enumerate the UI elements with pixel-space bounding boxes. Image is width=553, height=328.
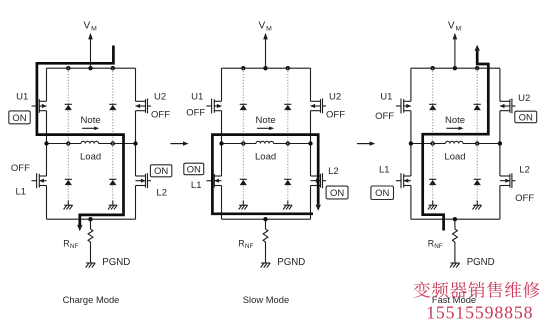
svg-text:U1: U1 (380, 92, 392, 103)
diode body L2 panel1 (109, 179, 116, 185)
node mid-left corner panel2 (219, 141, 223, 145)
svg-text:PGND: PGND (102, 257, 130, 268)
wire mid rail right panel1 (99, 143, 136, 145)
wire current path Charge Mode (37, 46, 124, 227)
inductor Load panel3 (445, 141, 463, 143)
arrow note panel1 (82, 127, 99, 131)
wire R_NF top lead panel3 (454, 219, 456, 229)
svg-text:R: R (63, 238, 69, 248)
node top-right diode junction panel1 (111, 66, 115, 70)
diode body L2 panel2 (284, 179, 291, 185)
svg-text:Note: Note (445, 115, 465, 126)
node R_NF junction panel1 (88, 217, 92, 221)
svg-text:OFF: OFF (515, 193, 534, 204)
svg-text:U1: U1 (16, 92, 28, 103)
svg-text:R: R (428, 238, 434, 248)
diode body L2 panel3 (474, 179, 481, 185)
value label R_NF panel2 (238, 238, 253, 250)
wire mid rail left panel1 (47, 143, 82, 145)
svg-text:Load: Load (444, 152, 465, 163)
watermark chinese text (414, 282, 540, 299)
svg-text:OFF: OFF (186, 107, 205, 118)
state box ON U1 panel1 (9, 111, 30, 124)
svg-text:ON: ON (12, 113, 26, 124)
node V_M connection panel3 (453, 66, 457, 70)
svg-text:Note: Note (81, 115, 101, 126)
node R_NF junction panel2 (263, 217, 267, 221)
svg-text:U2: U2 (329, 92, 341, 103)
wire mid rail right panel2 (274, 143, 311, 145)
node mid diode1 panel1 (66, 141, 70, 145)
svg-text:OFF: OFF (375, 111, 394, 122)
diode body U1 panel1 (65, 104, 72, 110)
diode body U2 panel3 (474, 104, 481, 110)
wire bottom rail panel3 (411, 218, 500, 220)
svg-text:OFF: OFF (326, 110, 345, 121)
transistor U1 panel2 (207, 99, 222, 114)
wire current path Slow Mode (212, 135, 318, 214)
wire mid rail left panel2 (222, 143, 257, 145)
net V_M arrow panel1 (88, 33, 93, 68)
transistor L1 panel1 (32, 173, 47, 188)
ground PGND panel2 (261, 263, 271, 268)
diode body L1 panel3 (429, 179, 436, 185)
svg-text:Charge Mode: Charge Mode (63, 294, 120, 305)
wire right edge panel3 (499, 68, 501, 219)
ground chassis lower-left panel3 (428, 201, 437, 210)
ground chassis lower-right panel2 (283, 201, 292, 210)
svg-text:NF: NF (70, 243, 79, 250)
diode body L1 panel1 (65, 179, 72, 185)
wire R_NF top lead panel2 (265, 219, 267, 229)
transistor U1 panel1 (32, 99, 47, 114)
net V_M arrow panel2 (263, 33, 268, 68)
wire R_NF bottom lead panel3 (454, 242, 456, 263)
ground chassis lower-left panel1 (64, 201, 73, 210)
wire body-diode column lower-left panel2 (242, 144, 244, 201)
svg-text:U1: U1 (191, 92, 203, 103)
wire left edge panel2 (221, 68, 223, 219)
svg-text:R: R (238, 238, 244, 248)
svg-text:L2: L2 (156, 188, 167, 199)
wire body-diode column upper-right panel3 (476, 68, 478, 143)
wire left edge panel3 (410, 68, 412, 219)
wire body-diode column lower-left panel1 (67, 144, 69, 201)
arrowhead current path Slow Mode (316, 205, 321, 211)
wire R_NF bottom lead panel1 (90, 242, 92, 263)
svg-text:PGND: PGND (467, 257, 495, 268)
svg-text:NF: NF (245, 243, 254, 250)
node mid diode1 panel2 (241, 141, 245, 145)
wire body-diode column upper-right panel1 (112, 68, 114, 143)
wire body-diode column upper-left panel2 (242, 68, 244, 143)
resistor R_NF panel3 (453, 229, 458, 242)
diode body U1 panel3 (429, 104, 436, 110)
wire top rail panel2 (222, 67, 311, 69)
transistor L1 panel3 (396, 173, 411, 188)
svg-text:Load: Load (255, 152, 276, 163)
node mid-left corner panel3 (409, 141, 413, 145)
wire body-diode column lower-right panel3 (476, 144, 478, 201)
node mid diode2 panel3 (475, 141, 479, 145)
svg-text:Slow Mode: Slow Mode (243, 294, 289, 305)
wire body-diode column upper-left panel1 (67, 68, 69, 143)
node R_NF junction panel3 (453, 217, 457, 221)
state box ON L2 panel2 (326, 186, 348, 199)
wire top rail panel1 (47, 67, 136, 69)
resistor R_NF panel2 (263, 229, 268, 242)
wire body-diode column upper-left panel3 (432, 68, 434, 143)
value label R_NF panel1 (63, 238, 78, 250)
svg-text:L1: L1 (16, 186, 27, 197)
resistor R_NF panel1 (88, 229, 93, 242)
wire mid rail right panel3 (463, 143, 500, 145)
net label V_M panel2 (259, 21, 273, 33)
svg-text:V: V (448, 21, 455, 32)
svg-text:M: M (266, 26, 272, 33)
transistor U1 panel3 (396, 99, 411, 114)
svg-text:U2: U2 (154, 92, 166, 103)
node top-left diode junction panel1 (66, 66, 70, 70)
net label V_M panel3 (448, 21, 462, 33)
wire left edge panel1 (46, 68, 48, 219)
wire body-diode column upper-right panel2 (287, 68, 289, 143)
inductor Load panel2 (256, 141, 274, 143)
svg-text:M: M (91, 26, 97, 33)
node mid diode2 panel2 (286, 141, 290, 145)
diode body U2 panel2 (284, 104, 291, 110)
node mid diode1 panel3 (431, 141, 435, 145)
svg-text:OFF: OFF (11, 163, 30, 174)
svg-text:ON: ON (187, 164, 201, 175)
svg-text:L1: L1 (191, 180, 202, 191)
wire top rail panel3 (411, 67, 500, 69)
state box ON L1 panel3 (371, 186, 394, 200)
svg-text:ON: ON (154, 166, 168, 177)
wire right edge panel2 (310, 68, 312, 219)
arrow mode transition 2 (357, 141, 375, 145)
node mid-right corner panel1 (133, 141, 137, 145)
svg-text:ON: ON (375, 188, 389, 199)
node mid-right corner panel3 (498, 141, 502, 145)
transistor L2 panel1 (136, 173, 152, 188)
svg-text:ON: ON (330, 188, 344, 199)
svg-text:15515598858: 15515598858 (426, 303, 533, 323)
ground chassis lower-left panel2 (239, 201, 248, 210)
node V_M connection panel1 (88, 66, 92, 70)
value label R_NF panel3 (428, 238, 443, 250)
arrow note panel3 (446, 127, 463, 131)
ground PGND panel1 (86, 263, 96, 268)
wire bottom rail panel1 (47, 218, 136, 220)
wire current path Fast Mode (423, 51, 489, 231)
node mid-right corner panel2 (308, 141, 312, 145)
svg-text:Note: Note (256, 115, 276, 126)
node top-right diode junction panel2 (286, 66, 290, 70)
ground chassis lower-right panel1 (108, 201, 117, 210)
wire R_NF top lead panel1 (90, 219, 92, 229)
wire bottom rail panel2 (222, 218, 311, 220)
wire body-diode column lower-left panel3 (432, 144, 434, 201)
wire body-diode column lower-right panel2 (287, 144, 289, 201)
state box ON U2 panel3 (515, 111, 537, 123)
wire mid rail left panel3 (411, 143, 446, 145)
node mid diode2 panel1 (111, 141, 115, 145)
transistor L1 panel2 (207, 173, 222, 188)
svg-text:M: M (456, 26, 462, 33)
diode body L1 panel2 (240, 179, 247, 185)
state box ON L2 panel1 (150, 165, 171, 177)
state box ON L1 panel2 (184, 163, 204, 175)
diode body U2 panel1 (109, 104, 116, 110)
transistor U2 panel3 (500, 99, 516, 114)
node top-right diode junction panel3 (475, 66, 479, 70)
net label V_M panel1 (84, 21, 98, 33)
wire body-diode column lower-right panel1 (112, 144, 114, 201)
node mid-left corner panel1 (44, 141, 48, 145)
arrowhead current path Fast Mode (475, 45, 480, 51)
svg-text:L2: L2 (519, 165, 530, 176)
net V_M arrow panel3 (453, 33, 458, 68)
inductor Load panel1 (81, 141, 99, 143)
transistor U2 panel2 (310, 99, 326, 114)
wire R_NF bottom lead panel2 (265, 242, 267, 263)
svg-text:PGND: PGND (277, 257, 305, 268)
svg-text:Load: Load (80, 152, 101, 163)
svg-text:L1: L1 (379, 165, 390, 176)
svg-text:ON: ON (519, 112, 533, 123)
ground chassis lower-right panel3 (473, 201, 482, 210)
svg-text:V: V (259, 21, 266, 32)
transistor L2 panel2 (311, 173, 327, 188)
node top-left diode junction panel3 (431, 66, 435, 70)
transistor L2 panel3 (500, 173, 516, 188)
svg-text:V: V (84, 21, 91, 32)
arrow note panel2 (257, 127, 274, 131)
arrowhead current path Charge Mode (77, 225, 82, 231)
arrow mode transition 1 (170, 141, 188, 145)
svg-text:L2: L2 (328, 166, 339, 177)
transistor U2 panel1 (135, 99, 151, 114)
svg-text:NF: NF (434, 243, 443, 250)
node V_M connection panel2 (263, 66, 267, 70)
node top-left diode junction panel2 (241, 66, 245, 70)
svg-text:OFF: OFF (151, 110, 170, 121)
ground PGND panel3 (450, 263, 460, 268)
svg-text:U2: U2 (518, 93, 530, 104)
diode body U1 panel2 (240, 104, 247, 110)
wire right edge panel1 (135, 68, 137, 219)
